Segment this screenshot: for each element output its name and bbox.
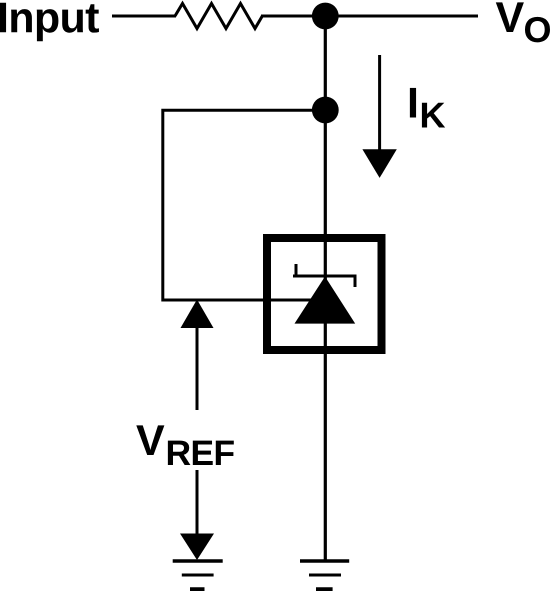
wire resistor to Vo	[261, 15, 478, 18]
ground (anode)	[300, 559, 349, 562]
shunt regulator cathode bar	[293, 275, 357, 278]
node junction dot top	[312, 3, 339, 30]
wire reference feedback loop	[163, 110, 325, 300]
label Input	[0, 3, 99, 42]
shunt regulator cathode bar left tick	[295, 264, 298, 278]
shunt regulator U1 box	[267, 238, 382, 350]
shunt regulator cathode bar right tick	[354, 275, 357, 288]
wire input to resistor	[112, 15, 176, 18]
node junction dot middle	[312, 97, 339, 124]
ground (Vref reference)	[173, 559, 223, 562]
label Vo	[496, 2, 524, 32]
wire vertical main	[324, 16, 327, 561]
Vref up arrow	[181, 300, 214, 329]
label Ik	[410, 88, 416, 118]
current arrow Ik	[378, 55, 381, 151]
resistor R	[175, 4, 262, 29]
shunt regulator anode triangle	[295, 277, 356, 324]
Vref down arrow	[196, 470, 199, 536]
label Vref	[136, 425, 164, 455]
